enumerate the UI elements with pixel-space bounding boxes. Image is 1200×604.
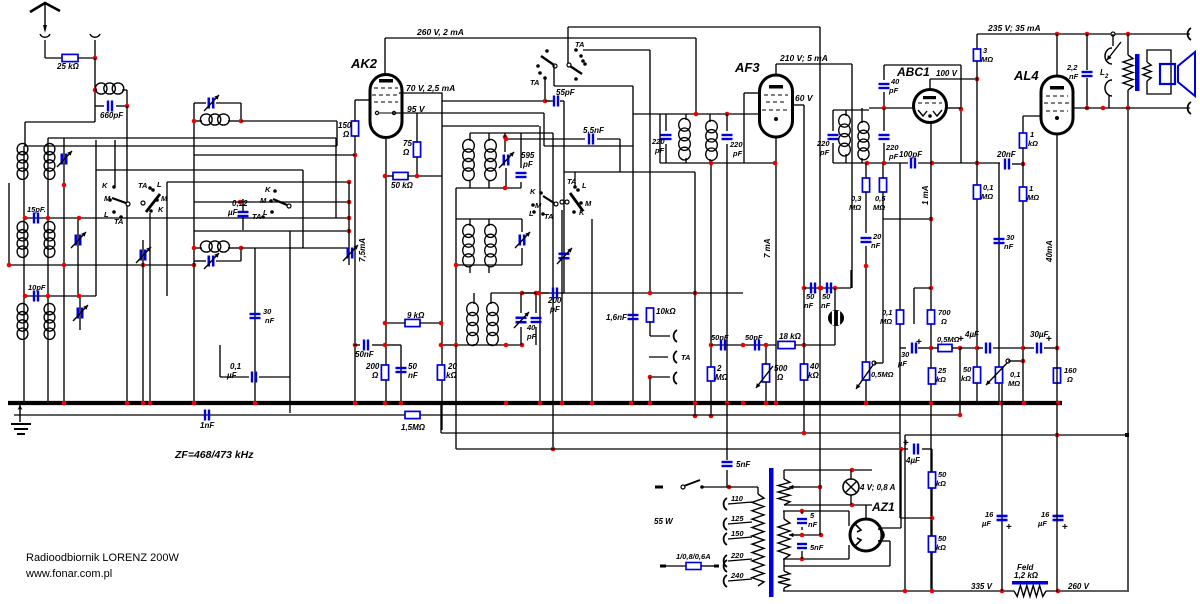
svg-text:260 V, 2 mA: 260 V, 2 mA xyxy=(416,27,464,37)
svg-text:235 V; 35 mA: 235 V; 35 mA xyxy=(987,23,1041,33)
svg-text:2: 2 xyxy=(1104,74,1109,80)
svg-text:220: 220 xyxy=(730,551,744,560)
svg-text:pF: pF xyxy=(526,332,537,341)
svg-text:0,3: 0,3 xyxy=(851,194,862,203)
svg-text:10pF: 10pF xyxy=(28,283,46,292)
svg-text:50nF: 50nF xyxy=(711,333,729,342)
svg-text:Ω: Ω xyxy=(1066,375,1073,384)
svg-text:nF: nF xyxy=(808,520,818,529)
svg-text:50: 50 xyxy=(822,292,831,301)
svg-text:5nF: 5nF xyxy=(810,543,824,552)
svg-text:kΩ: kΩ xyxy=(936,543,946,552)
svg-text:0,5MΩ: 0,5MΩ xyxy=(871,370,894,379)
svg-text:240: 240 xyxy=(730,571,744,580)
svg-text:15pF.: 15pF. xyxy=(27,205,46,214)
svg-text:MΩ: MΩ xyxy=(981,55,993,64)
svg-text:16: 16 xyxy=(1041,510,1050,519)
svg-text:595: 595 xyxy=(521,151,535,160)
svg-text:µF: µF xyxy=(1037,519,1047,528)
svg-text:100 V: 100 V xyxy=(936,69,958,78)
svg-text:MΩ: MΩ xyxy=(1027,193,1039,202)
svg-text:50nF: 50nF xyxy=(355,350,375,359)
svg-text:1: 1 xyxy=(1030,130,1034,139)
svg-text:70 V, 2,5 mA: 70 V, 2,5 mA xyxy=(406,83,455,93)
svg-text:16: 16 xyxy=(985,510,994,519)
svg-text:20: 20 xyxy=(872,232,882,241)
svg-text:K: K xyxy=(579,208,585,217)
svg-text:110: 110 xyxy=(731,494,744,503)
svg-text:M: M xyxy=(585,199,592,208)
svg-text:220: 220 xyxy=(885,143,899,152)
svg-text:220: 220 xyxy=(651,137,665,146)
svg-text:AF3: AF3 xyxy=(734,60,760,75)
svg-text:50: 50 xyxy=(408,362,417,371)
svg-text:µF: µF xyxy=(227,208,239,217)
svg-text:ZF=468/473 kHz: ZF=468/473 kHz xyxy=(174,449,254,461)
svg-text:MΩ: MΩ xyxy=(880,317,892,326)
svg-text:L: L xyxy=(104,210,109,219)
svg-text:18 kΩ: 18 kΩ xyxy=(779,332,802,341)
svg-text:µF: µF xyxy=(226,371,238,380)
svg-text:40mA: 40mA xyxy=(1045,240,1054,263)
svg-text:nF: nF xyxy=(408,371,419,380)
svg-text:µF: µF xyxy=(981,519,991,528)
svg-text:200: 200 xyxy=(365,362,380,371)
svg-text:50: 50 xyxy=(938,534,947,543)
svg-text:0,1: 0,1 xyxy=(230,362,242,371)
svg-text:nF: nF xyxy=(804,301,814,310)
svg-text:660pF: 660pF xyxy=(100,111,124,120)
svg-text:pF: pF xyxy=(888,86,899,95)
svg-text:50: 50 xyxy=(806,292,815,301)
svg-text:ABC1: ABC1 xyxy=(896,65,930,79)
svg-text:nF: nF xyxy=(1004,242,1014,251)
svg-text:1/0,8/0,6A: 1/0,8/0,6A xyxy=(676,552,711,561)
svg-text:nF: nF xyxy=(1069,72,1079,81)
svg-text:Ω: Ω xyxy=(342,130,350,139)
svg-text:AK2: AK2 xyxy=(350,56,378,71)
svg-text:TA: TA xyxy=(575,40,584,49)
svg-text:335 V: 335 V xyxy=(971,582,993,591)
svg-text:kΩ: kΩ xyxy=(961,374,971,383)
svg-text:50 kΩ: 50 kΩ xyxy=(391,181,414,190)
svg-text:TA: TA xyxy=(544,212,553,221)
svg-text:220: 220 xyxy=(816,139,830,148)
svg-text:55pF: 55pF xyxy=(556,88,576,97)
svg-text:Ω: Ω xyxy=(402,148,410,157)
svg-text:4µF: 4µF xyxy=(905,456,921,465)
svg-text:kΩ: kΩ xyxy=(936,479,946,488)
svg-text:30: 30 xyxy=(1006,233,1015,242)
svg-text:2: 2 xyxy=(716,364,722,373)
svg-text:0,5: 0,5 xyxy=(875,194,886,203)
svg-text:K: K xyxy=(102,181,108,190)
svg-text:TA: TA xyxy=(530,78,539,87)
svg-text:10kΩ: 10kΩ xyxy=(656,307,676,316)
svg-text:K: K xyxy=(530,187,536,196)
svg-text:L: L xyxy=(157,180,162,189)
svg-text:9 kΩ: 9 kΩ xyxy=(407,311,425,320)
svg-text:MΩ: MΩ xyxy=(1008,379,1020,388)
svg-text:+: + xyxy=(903,438,909,449)
svg-text:40: 40 xyxy=(890,77,900,86)
svg-text:30: 30 xyxy=(901,350,910,359)
svg-text:TA: TA xyxy=(138,181,147,190)
svg-text:200: 200 xyxy=(547,296,562,305)
svg-text:55 W: 55 W xyxy=(654,517,674,526)
svg-text:TA: TA xyxy=(681,353,690,362)
svg-text:M: M xyxy=(535,201,542,210)
svg-text:1,2 kΩ: 1,2 kΩ xyxy=(1014,571,1039,580)
svg-text:160: 160 xyxy=(1064,366,1077,375)
svg-text:+: + xyxy=(916,337,922,348)
svg-text:nF: nF xyxy=(265,316,275,325)
svg-text:50: 50 xyxy=(938,470,947,479)
svg-text:Radioodbiornik LORENZ 200W: Radioodbiornik LORENZ 200W xyxy=(26,552,179,564)
svg-text:1,6nF: 1,6nF xyxy=(606,313,628,322)
svg-text:40: 40 xyxy=(526,323,536,332)
svg-text:0,1: 0,1 xyxy=(1010,370,1020,379)
svg-text:+: + xyxy=(1046,334,1052,345)
svg-text:125: 125 xyxy=(731,514,744,523)
svg-text:TA: TA xyxy=(252,212,261,221)
svg-text:2,2: 2,2 xyxy=(1066,63,1078,72)
svg-text:5,5nF: 5,5nF xyxy=(583,126,605,135)
svg-text:25 kΩ: 25 kΩ xyxy=(56,62,80,71)
svg-text:K: K xyxy=(158,205,164,214)
svg-text:L: L xyxy=(582,181,587,190)
svg-text:150: 150 xyxy=(731,529,744,538)
svg-text:0,1: 0,1 xyxy=(882,308,892,317)
svg-text:700: 700 xyxy=(938,308,951,317)
svg-text:pF: pF xyxy=(549,305,561,314)
svg-text:75: 75 xyxy=(403,139,412,148)
svg-text:AL4: AL4 xyxy=(1013,68,1039,83)
svg-text:µF: µF xyxy=(897,359,907,368)
svg-text:Ω: Ω xyxy=(940,317,947,326)
svg-text:+: + xyxy=(1062,522,1068,533)
svg-text:1nF: 1nF xyxy=(200,421,215,430)
svg-text:pF: pF xyxy=(732,149,743,158)
svg-text:50: 50 xyxy=(963,365,972,374)
svg-text:AZ1: AZ1 xyxy=(871,500,895,514)
svg-text:25: 25 xyxy=(937,366,947,375)
svg-text:5nF: 5nF xyxy=(736,460,751,469)
svg-text:50nF: 50nF xyxy=(745,333,763,342)
svg-text:60 V: 60 V xyxy=(795,93,814,103)
svg-text:150: 150 xyxy=(338,121,352,130)
svg-text:0,1: 0,1 xyxy=(983,183,993,192)
svg-text:100pF: 100pF xyxy=(899,150,923,159)
svg-text:nF: nF xyxy=(821,301,831,310)
svg-text:7,5mA: 7,5mA xyxy=(358,238,367,262)
svg-text:nF: nF xyxy=(871,241,881,250)
svg-text:+: + xyxy=(1006,522,1012,533)
svg-text:www.fonar.com.pl: www.fonar.com.pl xyxy=(25,568,112,580)
svg-text:7 mA: 7 mA xyxy=(763,238,772,258)
svg-text:MΩ: MΩ xyxy=(981,192,993,201)
svg-text:Ω: Ω xyxy=(371,371,379,380)
svg-text:kΩ: kΩ xyxy=(1028,139,1038,148)
svg-text:40: 40 xyxy=(809,362,819,371)
svg-text:0,5MΩ: 0,5MΩ xyxy=(937,335,960,344)
svg-text:M: M xyxy=(161,194,168,203)
svg-text:1: 1 xyxy=(1029,184,1033,193)
svg-text:1 mA: 1 mA xyxy=(921,185,930,205)
svg-text:pF: pF xyxy=(522,160,534,169)
svg-text:20nF: 20nF xyxy=(996,150,1017,159)
svg-text:kΩ: kΩ xyxy=(808,371,819,380)
svg-text:pF: pF xyxy=(888,152,899,161)
svg-text:30: 30 xyxy=(263,307,272,316)
svg-text:M: M xyxy=(260,196,267,205)
svg-text:pF: pF xyxy=(654,146,665,155)
svg-text:1,5MΩ: 1,5MΩ xyxy=(401,423,426,432)
svg-text:4 V; 0,8 A: 4 V; 0,8 A xyxy=(859,483,896,492)
svg-text:K: K xyxy=(265,185,271,194)
svg-text:4µF: 4µF xyxy=(964,330,980,339)
svg-text:kΩ: kΩ xyxy=(936,375,946,384)
svg-text:Ω: Ω xyxy=(776,373,784,382)
svg-text:260 V: 260 V xyxy=(1067,582,1090,591)
svg-text:220: 220 xyxy=(729,140,743,149)
svg-text:MΩ: MΩ xyxy=(849,203,861,212)
svg-text:+: + xyxy=(958,334,964,345)
